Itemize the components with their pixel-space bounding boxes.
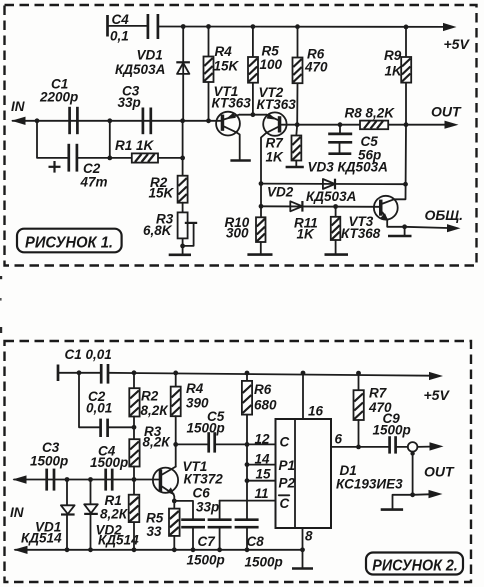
svg-text:R1: R1 <box>105 493 122 508</box>
svg-text:C6: C6 <box>193 486 211 501</box>
diode VD1 КД514 (fig.2) <box>21 480 75 550</box>
svg-text:P2: P2 <box>279 476 296 491</box>
node: rail2 / R4 <box>173 371 178 376</box>
svg-text:R6: R6 <box>254 382 272 397</box>
svg-text:8: 8 <box>305 529 313 544</box>
wire pin 8 <box>302 528 304 550</box>
svg-text:OUT: OUT <box>431 104 462 120</box>
svg-text:33p: 33p <box>196 500 219 515</box>
svg-text:C7: C7 <box>198 534 217 549</box>
caption box РИСУНОК 2. <box>366 553 463 575</box>
node: IN / C2 branch <box>35 118 40 123</box>
node: emitter / ОБЩ / ground <box>402 224 407 229</box>
svg-text:КТ363: КТ363 <box>212 96 252 111</box>
resistor R6 470 <box>293 27 329 125</box>
svg-text:РИСУНОК 1.: РИСУНОК 1. <box>25 234 113 251</box>
wire C1/C2 parallel link <box>109 121 111 158</box>
node: C2 / R2-R3 junction <box>132 425 137 430</box>
ground (VT1 collector) <box>230 159 250 162</box>
resistor R4 390 (fig.2) <box>171 373 209 445</box>
capacitor C6 33p (fig.2) <box>174 486 219 550</box>
transistor VT2 КТ363 <box>257 85 297 136</box>
wire VT1 collector column (fig.2) <box>175 444 177 466</box>
resistor R3 8,2K (fig.2) <box>129 424 171 480</box>
node: rail / R5 <box>251 24 256 29</box>
capacitor C7 1500p (fig.2) <box>187 501 232 568</box>
resistor R8 8,2K (horizontal) <box>345 106 396 130</box>
node: rail2 / R7 <box>356 371 361 376</box>
diode VD2 КД514 (fig.2) <box>84 480 139 550</box>
svg-text:1K: 1K <box>297 226 316 241</box>
ground (R7) <box>286 166 304 169</box>
svg-text:470: 470 <box>304 60 328 75</box>
svg-text:680: 680 <box>254 398 277 413</box>
svg-text:R1 1K: R1 1K <box>115 138 155 153</box>
node: OUT column / VD3 row <box>403 182 408 187</box>
resistor R7 1K <box>266 125 302 167</box>
capacitor C1 2200p <box>39 77 78 135</box>
node: IN / R4 (VT1 base) <box>206 118 211 123</box>
svg-text:15: 15 <box>256 467 272 482</box>
node: below OUT terminal <box>410 451 414 455</box>
wire +5V rail <box>158 23 457 31</box>
node: R6 column / pin15 <box>245 478 250 483</box>
node: line2 / C6 <box>191 547 196 552</box>
node: VD2 row / VT2 collector column <box>259 204 264 209</box>
wire pin 16 <box>302 373 304 419</box>
svg-text:1500p: 1500p <box>90 455 128 470</box>
ground (R10) <box>247 253 272 256</box>
wire IN line <box>12 117 221 125</box>
node: collector / R4 / C5 <box>173 442 178 447</box>
node: R3 bottom <box>180 244 185 249</box>
svg-text:R9: R9 <box>384 48 402 63</box>
capacitor C5 56p to ground <box>328 125 381 163</box>
svg-text:R8 8,2K: R8 8,2K <box>345 106 396 121</box>
svg-text:15K: 15K <box>214 59 240 74</box>
svg-text:КД514: КД514 <box>98 533 139 548</box>
node: IN / VD1 / R2 <box>180 118 185 123</box>
svg-text:C8: C8 <box>247 534 265 549</box>
resistor R5 100 <box>248 27 283 115</box>
svg-text:1500p: 1500p <box>187 420 225 435</box>
svg-text:КД503А: КД503А <box>306 189 356 204</box>
diode VD3 КД503А <box>308 160 388 190</box>
wire VT2 base <box>281 124 297 126</box>
svg-text:33p: 33p <box>118 95 141 110</box>
svg-text:R2: R2 <box>141 389 159 404</box>
tap bracket at R3 bottom <box>183 223 198 246</box>
svg-text:33: 33 <box>147 524 163 539</box>
OUT terminal circle <box>408 442 418 452</box>
svg-text:+5V: +5V <box>444 36 471 52</box>
svg-text:2200p: 2200p <box>39 90 78 105</box>
stray scan mark left edge (upper) <box>0 276 2 279</box>
svg-text:P1: P1 <box>279 458 296 473</box>
resistor R6 680 (fig.2) <box>242 373 277 520</box>
svg-text:R4: R4 <box>186 381 204 396</box>
svg-text:+5V: +5V <box>424 387 451 403</box>
svg-text:1500p: 1500p <box>187 553 225 568</box>
node: emitter bus / R5 <box>251 112 256 117</box>
svg-text:КД503А: КД503А <box>115 62 165 77</box>
node: line1 / VD2 <box>88 477 93 482</box>
node: VD2 row / R11 <box>333 204 338 209</box>
resistor R11 1K <box>294 207 340 254</box>
svg-text:6,8K: 6,8K <box>143 223 173 238</box>
node: line2 / R1 <box>132 547 137 552</box>
svg-text:R7: R7 <box>266 136 285 151</box>
wire pin 14 <box>247 464 276 466</box>
svg-text:16: 16 <box>308 404 324 419</box>
node: R1 / R2 branch <box>180 156 185 161</box>
svg-text:IN: IN <box>11 99 25 114</box>
svg-text:КТ368: КТ368 <box>341 226 381 241</box>
ground (R11) <box>325 253 349 256</box>
node: rail / R6 <box>295 24 300 29</box>
svg-text:8,2К: 8,2К <box>141 403 170 418</box>
resistor R9 1K <box>384 27 411 125</box>
svg-text:КТ372: КТ372 <box>184 472 224 487</box>
diode VD1 КД503А <box>115 48 190 78</box>
svg-text:КС193ИЕ3: КС193ИЕ3 <box>336 477 403 492</box>
svg-text:0,01: 0,01 <box>86 401 112 416</box>
svg-text:C: C <box>280 435 290 450</box>
resistor R4 15K <box>204 27 240 121</box>
node: rail2 / R2 <box>132 370 137 375</box>
stray scan mark left edge (middle) <box>0 298 2 301</box>
capacitor C4 with left terminal stub <box>108 12 158 44</box>
wire ОБЩ arrow <box>405 224 461 232</box>
node: link / lower wire <box>107 156 112 161</box>
wire output row to OUT <box>297 121 459 129</box>
node: line2 / C8 <box>245 547 250 552</box>
IC D1 КС193ИЕ3 <box>276 419 404 528</box>
wire pin 15 <box>247 480 276 482</box>
stray scan mark left edge (lower) <box>0 327 2 333</box>
wire VT3 emitter to common <box>387 220 404 227</box>
node: pin6 / R7 <box>356 445 361 450</box>
svg-text:R4: R4 <box>215 44 233 59</box>
node: line1 / R3 / R1 (VT1 base) <box>132 477 137 482</box>
caption box РИСУНОК 1. <box>17 229 122 253</box>
ground below R3 <box>169 254 191 257</box>
svg-text:VD3 КД503А: VD3 КД503А <box>308 160 388 175</box>
svg-text:1K: 1K <box>385 64 404 79</box>
wire emitter bus VT1-VT2 <box>239 114 266 116</box>
transistor VT3 КТ368 <box>341 196 398 241</box>
svg-text:C4: C4 <box>112 12 130 27</box>
capacitor C2 0,01 (fig.2) with branch wire <box>79 373 134 437</box>
wire +5V rail (fig.2) <box>108 372 443 380</box>
svg-text:C1 0,01: C1 0,01 <box>65 347 112 362</box>
transistor VT1 КТ363 <box>212 84 252 136</box>
node: VT2 base / R6 / R7 <box>295 122 300 127</box>
node: IN / C2 link <box>107 118 112 123</box>
svg-text:100: 100 <box>260 57 283 72</box>
wire OUT column down <box>412 452 414 495</box>
capacitor C4 1500p (fig.2) <box>90 444 128 491</box>
node: rail2 / C2 branch <box>77 370 82 375</box>
svg-text:1500p: 1500p <box>30 454 68 469</box>
wire VT1 collector to ground <box>237 133 240 160</box>
wire pin 11 <box>220 500 276 502</box>
wire pin 6 output <box>331 446 389 448</box>
svg-text:1500p: 1500p <box>245 555 283 570</box>
svg-text:VD1: VD1 <box>137 48 163 63</box>
node: R6 column / pin14 <box>245 462 250 467</box>
svg-text:R7: R7 <box>369 386 388 401</box>
figure 1 dashed border <box>5 5 477 266</box>
svg-text:РИСУНОК 2.: РИСУНОК 2. <box>372 558 458 575</box>
node: OUT column / arrow 2 / ground <box>410 492 415 497</box>
resistor R2 15K <box>149 121 188 213</box>
node: rail / VD1 <box>181 24 186 29</box>
node: line2 / C7 <box>217 547 222 552</box>
resistor R1 8,2K (fig.2) <box>100 480 139 550</box>
diode VD2 КД503А <box>267 185 356 212</box>
resistor R5 33 (fig.2) <box>146 501 180 550</box>
node: output row / C5 <box>338 122 343 127</box>
capacitor C8 1500p (fig.2) <box>235 520 283 570</box>
transistor VT1 КТ372 (fig.2) <box>153 459 223 495</box>
svg-text:1500p: 1500p <box>373 422 411 437</box>
wire OUT arrow 1 <box>417 442 443 450</box>
resistor R3 6,8K <box>143 211 188 253</box>
svg-text:КД514: КД514 <box>21 531 62 546</box>
node: rail2 / pin16 <box>301 371 306 376</box>
svg-text:12: 12 <box>255 431 271 446</box>
wire OUT node down to VT3 collector <box>394 125 406 200</box>
svg-text:1K: 1K <box>266 150 285 165</box>
wire VT1 emitter node (fig.2) <box>173 494 176 501</box>
node: emitter / R5 / C6 <box>172 499 177 504</box>
node: rail / R4 <box>206 24 211 29</box>
capacitor C3 33p <box>118 84 151 135</box>
node: rail / R9 <box>404 25 409 30</box>
node: VD3 row / VT2 collector <box>259 181 264 186</box>
node: R6 column / C5 / pin12 <box>245 442 250 447</box>
svg-text:300: 300 <box>226 225 249 240</box>
ground (C5) <box>328 152 351 155</box>
svg-text:0,1: 0,1 <box>110 29 129 44</box>
svg-text:6: 6 <box>335 431 343 446</box>
svg-text:VD2: VD2 <box>267 185 294 200</box>
svg-text:8,2К: 8,2К <box>100 507 129 522</box>
capacitor C2 47m (electrolytic) with branch wire <box>37 121 110 190</box>
svg-text:47m: 47m <box>80 175 108 190</box>
node: line2 / VD1 <box>65 547 70 552</box>
wire OUT arrow 2 <box>413 490 443 498</box>
wire VD2 row <box>261 205 379 208</box>
node: rail2 / R6 <box>245 371 250 376</box>
capacitor C3 1500p (fig.2) <box>30 440 68 491</box>
svg-text:IN: IN <box>10 505 24 520</box>
ground (OUT terminal, fig.2) <box>381 495 413 510</box>
ground (line 2 end) <box>292 550 313 569</box>
wire VD1 branch <box>182 27 184 121</box>
node: line2 / R5 <box>172 547 177 552</box>
resistor R7 470 (fig.2) <box>354 373 393 447</box>
node: line2 / pin8 / ground <box>300 547 305 552</box>
capacitor C5 1500p (fig.2) with pin12 wire <box>176 409 276 453</box>
svg-text:OUT: OUT <box>424 463 455 479</box>
svg-text:390: 390 <box>186 396 209 411</box>
figure 2 dashed border <box>5 341 472 582</box>
resistor R10 300 <box>225 215 266 254</box>
svg-text:14: 14 <box>255 451 271 466</box>
wire VT2 collector column <box>261 133 266 217</box>
ground (VT3 emitter) <box>388 227 412 236</box>
node: line2 / VD2 <box>88 547 93 552</box>
resistor R2 8,2K (fig.2) <box>129 373 169 439</box>
svg-text:C: C <box>280 496 290 511</box>
wire VD3 row <box>261 183 406 186</box>
wire input line 1 (fig.2) <box>13 475 159 483</box>
node: output row / R9 <box>404 122 409 127</box>
svg-text:ОБЩ.: ОБЩ. <box>425 207 464 223</box>
svg-text:КТ363: КТ363 <box>257 97 297 112</box>
svg-text:11: 11 <box>255 486 269 501</box>
wire input line 2 (fig.2) <box>14 546 303 554</box>
capacitor C1 0,01 (fig.2) with left terminal stub <box>58 347 112 384</box>
node: line1 / VD1 <box>65 477 70 482</box>
capacitor C9 1500p (fig.2) <box>373 411 411 454</box>
svg-text:15K: 15K <box>149 186 175 201</box>
resistor R1 1K (horizontal) <box>110 138 183 163</box>
svg-text:8,2К: 8,2К <box>143 434 172 449</box>
